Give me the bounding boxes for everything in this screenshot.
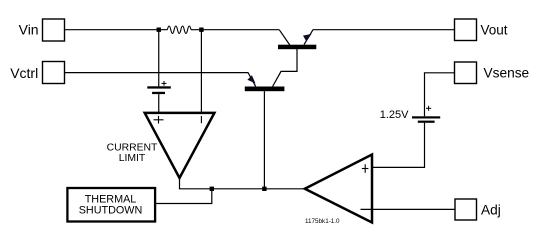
wire resistor to Q1 collector xyxy=(191,29,279,31)
wire battery B1 to current limit + input xyxy=(158,94,160,113)
wire thermal shutdown to bus xyxy=(155,189,212,204)
pad Vout xyxy=(455,19,477,41)
resistor R (sense) xyxy=(167,26,191,33)
pad Vctrl xyxy=(43,62,65,84)
wire U1 output to bus xyxy=(180,178,305,189)
pad Vin xyxy=(43,19,65,41)
battery B2 1.25V reference xyxy=(412,106,440,123)
wire junction2 down to current limit - input xyxy=(200,30,202,113)
plus mark U2 xyxy=(362,164,369,173)
node junction dot thermal shutdown tap xyxy=(210,187,214,191)
node junction dot left of resistor xyxy=(157,28,161,32)
wire Vin to resistor xyxy=(65,29,168,31)
svg-text:Vout: Vout xyxy=(481,22,508,37)
op-amp U2 error amp (pointing left) xyxy=(305,155,372,223)
wire Q1 emitter to Vout xyxy=(313,29,455,31)
svg-text:Vsense: Vsense xyxy=(484,66,530,81)
transistor Q2 driver xyxy=(245,87,285,92)
wire Vsense to battery B2 xyxy=(425,73,455,117)
transistor Q1 pass (NPN) xyxy=(278,30,316,50)
svg-text:CURRENT: CURRENT xyxy=(107,142,158,153)
svg-text:Vin: Vin xyxy=(19,22,39,38)
plus mark U1 xyxy=(154,116,164,124)
node junction dot Q2 collector tap xyxy=(262,187,266,191)
svg-text:1.25V: 1.25V xyxy=(380,109,409,121)
svg-text:1175bk1-1.0: 1175bk1-1.0 xyxy=(305,218,340,225)
wire Q2 collector down to bus xyxy=(263,91,265,189)
op-amp U1 CURRENT LIMIT (pointing down) xyxy=(145,113,215,178)
wire Adj to U2 - input (minus mark merged) xyxy=(361,208,456,210)
block THERMAL SHUTDOWN xyxy=(67,188,155,222)
battery B1 offset source xyxy=(147,81,171,94)
pad Adj xyxy=(455,199,477,220)
arrowhead Q1 emitter xyxy=(303,34,312,42)
svg-text:LIMIT: LIMIT xyxy=(119,153,146,164)
pad Vsense xyxy=(455,62,477,84)
wire Vctrl to Q2 emitter xyxy=(65,73,256,87)
minus mark U1 (rotated) xyxy=(200,116,202,123)
wire Q1 base to Q2 collector xyxy=(273,49,297,87)
svg-text:Vctrl: Vctrl xyxy=(10,65,38,81)
svg-text:SHUTDOWN: SHUTDOWN xyxy=(79,204,143,216)
node junction dot right of resistor xyxy=(199,28,203,32)
svg-text:Adj: Adj xyxy=(481,203,501,218)
arrowhead Q2 emitter xyxy=(247,75,255,83)
wire battery B2 to U2 + input xyxy=(372,123,425,168)
wire junction1 down to battery B1 xyxy=(158,30,160,87)
